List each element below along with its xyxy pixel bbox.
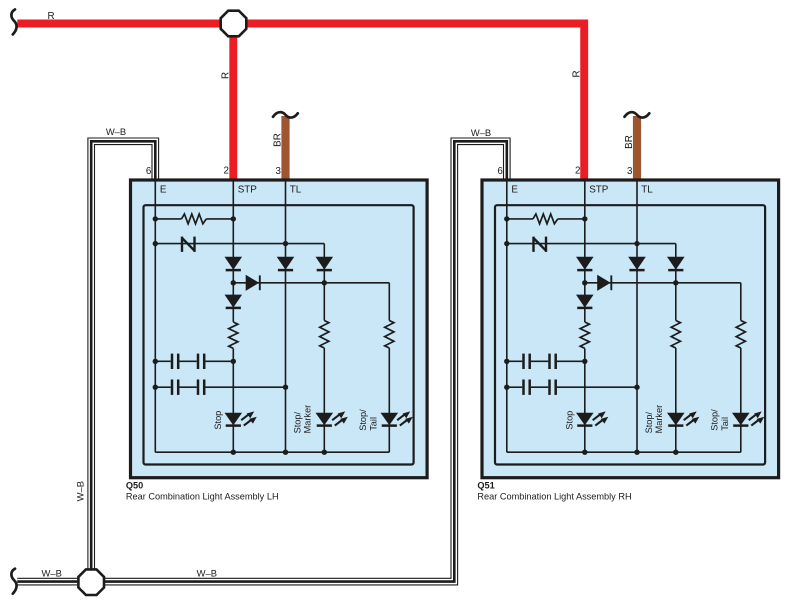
- svg-text:Rear Combination Light Assembl: Rear Combination Light Assembly RH: [477, 492, 631, 502]
- resistor on tail branch: [736, 321, 745, 349]
- wire W-B from Q51 pin 6 to splice (bottom run): [104, 141, 507, 581]
- resistor on STP branch (vertical): [229, 322, 238, 348]
- svg-text:R: R: [221, 72, 232, 79]
- LED Stop/Marker: [316, 413, 334, 426]
- svg-text:Tail: Tail: [720, 417, 730, 431]
- svg-text:W–B: W–B: [106, 126, 126, 137]
- wire BR to Q50 TL: [281, 116, 289, 180]
- diode D2 (TL column): [628, 257, 646, 270]
- resistor on marker branch: [671, 321, 680, 349]
- svg-text:W–B: W–B: [197, 567, 217, 578]
- wire bottom rail: [155, 451, 389, 453]
- wire R (battery feed, horizontal + drop to Q51): [17, 24, 584, 181]
- splice junction J1 (R wire): [221, 11, 247, 37]
- wire row E (E to TL, capacitors): [507, 386, 523, 388]
- wire row B (E to marker branch): [155, 243, 324, 245]
- capacitor C4: [197, 380, 200, 395]
- resistor on marker branch: [320, 321, 329, 349]
- svg-text:R: R: [572, 70, 583, 77]
- junction dots: [504, 216, 509, 221]
- wire BR to Q51 TL: [633, 116, 641, 180]
- wire row C (STP to tail branch): [585, 282, 741, 284]
- wire rail E (pin E vertical): [506, 180, 508, 452]
- wire rail TL (pin 3 vertical): [636, 180, 638, 452]
- resistor R (row A): [533, 214, 558, 224]
- LED Stop: [576, 413, 594, 426]
- svg-text:Q51: Q51: [477, 480, 494, 490]
- wire row A (E to STP): [155, 218, 181, 220]
- svg-text:STP: STP: [238, 185, 258, 196]
- capacitor C3: [522, 380, 525, 395]
- svg-text:Stop: Stop: [564, 411, 574, 430]
- wire W-B from Q50 pin 6 to splice: [91, 141, 155, 570]
- svg-text:Rear Combination Light Assembl: Rear Combination Light Assembly LH: [126, 492, 279, 502]
- svg-text:R: R: [48, 11, 55, 22]
- LED Stop/Marker: [667, 413, 685, 426]
- svg-text:W–B: W–B: [471, 127, 491, 138]
- diode D1 (STP column): [225, 257, 243, 270]
- wire bottom rail: [507, 451, 741, 453]
- svg-text:Stop/: Stop/: [358, 409, 368, 431]
- element N (row B): [181, 237, 183, 252]
- wire rail STP (pin 2 vertical): [584, 180, 586, 322]
- diode D5 (STP column lower): [225, 295, 243, 308]
- svg-text:6: 6: [146, 166, 152, 177]
- diode D5 (STP column lower): [576, 295, 594, 308]
- resistor R (row A): [182, 214, 207, 224]
- wire tail branch vertical: [740, 283, 742, 321]
- diode D3 (marker column): [316, 257, 334, 270]
- svg-text:Marker: Marker: [654, 405, 664, 434]
- svg-text:2: 2: [575, 166, 580, 177]
- svg-text:Stop/: Stop/: [292, 412, 302, 434]
- wire row A (E to STP): [507, 218, 533, 220]
- svg-text:STP: STP: [589, 185, 609, 196]
- capacitor C2: [197, 354, 200, 369]
- LED Stop/Tail: [732, 413, 750, 426]
- svg-text:Stop: Stop: [213, 411, 223, 430]
- capacitor C1: [171, 354, 174, 369]
- element N (row B): [532, 237, 534, 252]
- svg-text:TL: TL: [290, 185, 302, 196]
- wire tail branch vertical: [388, 283, 390, 321]
- wire row C (STP to tail branch): [233, 282, 389, 284]
- wire row D (E to STP, capacitors): [155, 360, 171, 362]
- svg-text:Stop/: Stop/: [644, 412, 654, 434]
- svg-text:BR: BR: [624, 135, 635, 149]
- wire row E (E to TL, capacitors): [155, 386, 171, 388]
- harness continuation squiggle (R wire, top left): [11, 9, 16, 34]
- wire row D (E to STP, capacitors): [507, 360, 523, 362]
- wire R drop to Q50 STP: [229, 24, 237, 181]
- junction dots: [153, 216, 158, 221]
- svg-text:2: 2: [223, 166, 228, 177]
- svg-text:Tail: Tail: [368, 417, 378, 431]
- LED Stop: [225, 413, 243, 426]
- resistor on STP branch (vertical): [580, 322, 589, 348]
- diode D4 (row C, pointing right): [597, 275, 610, 291]
- wire marker branch vertical: [675, 244, 677, 321]
- Q51 outer box: [482, 180, 779, 478]
- wire rail E (pin E vertical): [154, 180, 156, 452]
- svg-text:Q50: Q50: [126, 480, 143, 490]
- capacitor C3: [171, 380, 174, 395]
- diode D4 (row C, pointing right): [246, 275, 259, 291]
- wire rail STP (pin 2 vertical): [232, 180, 234, 322]
- wire rail TL (pin 3 vertical): [285, 180, 287, 452]
- svg-text:3: 3: [627, 166, 633, 177]
- diode D2 (TL column): [277, 257, 295, 270]
- svg-text:E: E: [160, 185, 167, 196]
- Q50 outer box: [131, 180, 428, 478]
- svg-text:3: 3: [275, 166, 281, 177]
- harness continuation tilde (BR wire Q51): [625, 112, 650, 117]
- harness continuation squiggle (W-B wire, bottom left): [11, 569, 16, 594]
- splice junction J2 (W-B wire): [78, 569, 104, 595]
- Q50 inner box: [144, 205, 414, 464]
- resistor on tail branch: [385, 321, 394, 349]
- wire marker branch vertical: [323, 244, 325, 321]
- svg-text:W–B: W–B: [42, 567, 62, 578]
- diode D3 (marker column): [667, 257, 685, 270]
- LED Stop/Tail: [381, 413, 399, 426]
- capacitor C4: [548, 380, 551, 395]
- Q51 inner box: [495, 205, 765, 464]
- svg-text:E: E: [511, 185, 518, 196]
- capacitor C2: [548, 354, 551, 369]
- svg-text:Marker: Marker: [303, 405, 313, 434]
- svg-text:BR: BR: [272, 133, 283, 147]
- svg-text:W–B: W–B: [75, 481, 86, 501]
- harness continuation tilde (BR wire Q50): [273, 112, 298, 117]
- wire W-B from splice to left harness: [17, 578, 78, 586]
- svg-text:6: 6: [497, 166, 503, 177]
- svg-text:Stop/: Stop/: [710, 409, 720, 431]
- diode D1 (STP column): [576, 257, 594, 270]
- wire row B (E to marker branch): [507, 243, 676, 245]
- capacitor C1: [522, 354, 525, 369]
- svg-text:TL: TL: [641, 185, 653, 196]
